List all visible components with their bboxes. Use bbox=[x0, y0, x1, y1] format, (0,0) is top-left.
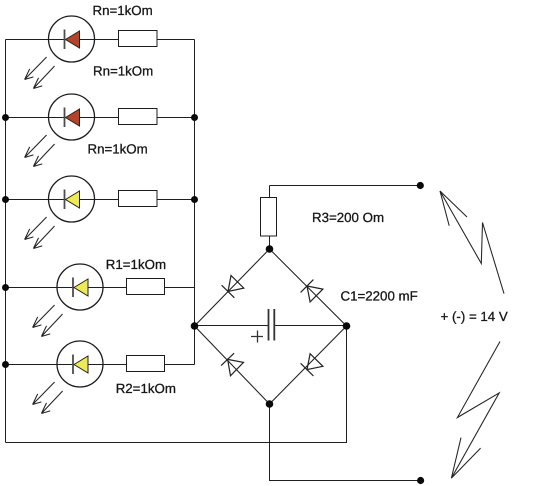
svg-text:Rn=1kOm: Rn=1kOm bbox=[88, 142, 148, 157]
svg-text:R2=1kOm: R2=1kOm bbox=[116, 381, 176, 396]
svg-text:Rn=1kOm: Rn=1kOm bbox=[93, 3, 153, 18]
svg-text:+ (-) = 14 V: + (-) = 14 V bbox=[441, 309, 508, 324]
svg-text:R1=1kOm: R1=1kOm bbox=[106, 257, 166, 272]
svg-text:Rn=1kOm: Rn=1kOm bbox=[93, 64, 153, 79]
svg-text:R3=200 Om: R3=200 Om bbox=[312, 210, 384, 225]
svg-text:C1=2200 mF: C1=2200 mF bbox=[341, 289, 418, 304]
